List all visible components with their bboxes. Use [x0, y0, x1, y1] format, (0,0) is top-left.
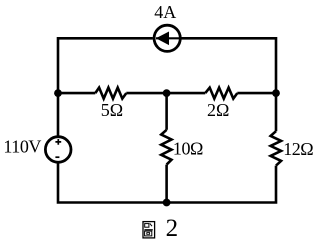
svg-text:5Ω: 5Ω: [101, 100, 123, 120]
svg-text:2: 2: [166, 215, 179, 242]
current source I1 internal line: [156, 37, 181, 39]
wire middle rail between node B and 2Ω: [167, 92, 206, 95]
current source I1 arrowhead: [156, 32, 169, 46]
node C junction dot (right rail / middle rail): [272, 89, 280, 97]
wire lower left rail and bottom-left segment: [58, 162, 167, 202]
node A junction dot (left rail / middle rail): [54, 89, 62, 97]
svg-text:12Ω: 12Ω: [283, 139, 313, 159]
node D junction dot (bottom rail / 10Ω branch): [163, 199, 171, 207]
wire bottom-right segment and lower right rail: [167, 166, 276, 203]
caption glyph 圖 (Figure) drawn as strokes: [143, 222, 155, 238]
svg-text:10Ω: 10Ω: [173, 139, 203, 159]
svg-text:110V: 110V: [3, 136, 41, 156]
wire middle rail between 5Ω and node B: [126, 92, 166, 95]
resistor R1 5Ω zigzag: [95, 88, 126, 99]
voltage source V1 plus sign: [55, 139, 61, 145]
current source I1 4A circle: [154, 25, 180, 51]
wire top-left segment and upper left rail: [58, 38, 153, 136]
node B junction dot (middle rail / 10Ω branch): [163, 89, 171, 97]
wire middle rail left lead: [58, 92, 95, 95]
voltage source V1 110V circle: [45, 137, 71, 163]
resistor R4 12Ω zigzag: [271, 131, 282, 165]
svg-text:4A: 4A: [154, 2, 176, 22]
wire top-right segment and upper right rail: [181, 38, 276, 131]
svg-text:2Ω: 2Ω: [207, 100, 229, 120]
wire middle branch lower lead: [165, 165, 168, 203]
resistor R2 2Ω zigzag: [205, 88, 237, 99]
wire middle rail right lead: [237, 92, 276, 95]
resistor R3 10Ω zigzag: [161, 130, 171, 165]
voltage source V1 minus sign: [55, 156, 59, 158]
wire middle branch upper lead: [165, 93, 168, 130]
